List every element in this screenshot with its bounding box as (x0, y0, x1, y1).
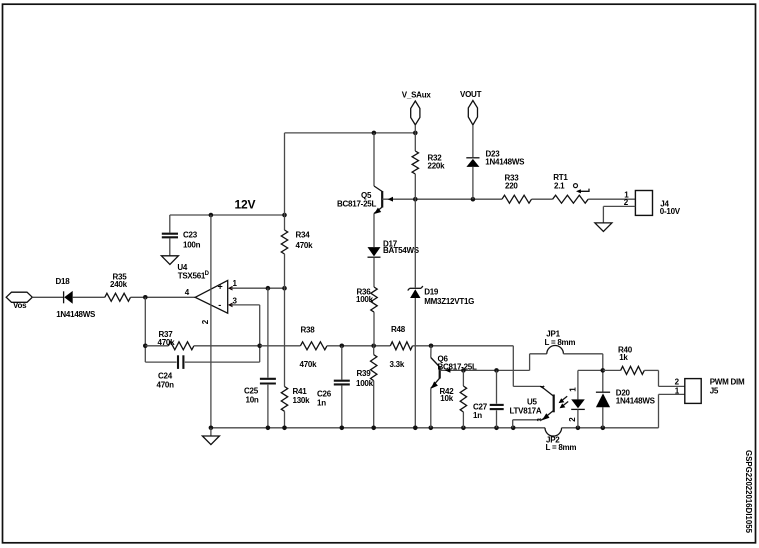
opto U5 LED (571, 399, 585, 408)
svg-text:2: 2 (568, 417, 577, 422)
zener D19 MM3Z12VT1G (410, 287, 421, 289)
svg-text:100k: 100k (356, 295, 374, 304)
wire (415, 198, 502, 200)
svg-text:240k: 240k (110, 280, 128, 289)
wire (373, 346, 375, 355)
wire (413, 345, 514, 347)
wire (267, 385, 269, 428)
resistor R35 240k (105, 293, 131, 301)
wire (284, 254, 286, 387)
svg-text:VOUT: VOUT (460, 90, 482, 99)
wire (210, 215, 212, 428)
svg-text:MM3Z12VT1G: MM3Z12VT1G (424, 297, 474, 306)
diode D18 1N4148WS (63, 291, 65, 303)
svg-text:1n: 1n (473, 411, 482, 420)
svg-text:V_SAux: V_SAux (402, 91, 432, 100)
wire (169, 215, 171, 233)
wire (496, 370, 498, 403)
svg-text:C23: C23 (183, 231, 198, 240)
wire (512, 420, 514, 428)
svg-text:3: 3 (537, 418, 543, 422)
svg-text:1: 1 (569, 387, 578, 392)
diode D20 1N4148WS (596, 391, 610, 393)
junction (576, 426, 581, 431)
svg-text:1: 1 (675, 386, 680, 395)
svg-text:BC817-25L: BC817-25L (337, 200, 376, 209)
junction (413, 197, 418, 202)
wire (231, 304, 260, 306)
svg-text:4: 4 (185, 288, 190, 297)
Q6 base wire w/ arrow (445, 368, 450, 373)
junction (601, 426, 606, 431)
svg-text:470k: 470k (300, 360, 318, 369)
node VOUT flag (468, 101, 477, 125)
ground at J4 (595, 223, 612, 232)
svg-text:L = 8mm: L = 8mm (545, 338, 576, 347)
junction (429, 426, 434, 431)
wire (285, 132, 416, 134)
svg-text:C24: C24 (158, 371, 173, 380)
svg-text:4: 4 (541, 385, 547, 389)
wire (210, 428, 212, 436)
wire (373, 214, 375, 248)
wire (373, 381, 375, 428)
wire (185, 361, 260, 363)
resistor R40 1k (621, 366, 645, 374)
svg-text:1N4148WS: 1N4148WS (485, 158, 525, 167)
wire (440, 369, 530, 371)
svg-text:100n: 100n (183, 240, 201, 249)
wire (341, 386, 343, 428)
resistor R48 3.3k (390, 342, 412, 350)
junction (282, 286, 287, 291)
svg-text:2.1: 2.1 (554, 182, 565, 191)
connector J5 PWM DIM (685, 379, 701, 404)
wire (211, 427, 545, 429)
svg-text:D18: D18 (56, 277, 71, 286)
wire (194, 345, 260, 347)
wire (602, 407, 604, 428)
wire (532, 198, 553, 200)
junction (257, 344, 262, 349)
capacitor C25 10n (260, 378, 276, 380)
svg-text:Vos: Vos (13, 301, 27, 310)
svg-text:220: 220 (505, 181, 518, 190)
opto U5 LTV817A phototransistor (553, 395, 555, 413)
svg-text:R41: R41 (293, 387, 308, 396)
resistor R33 220 (502, 195, 532, 203)
svg-text:R34: R34 (296, 231, 311, 240)
wire (430, 346, 432, 358)
wire (513, 419, 542, 421)
junction (143, 344, 148, 349)
svg-text:R48: R48 (391, 325, 406, 334)
svg-text:D19: D19 (424, 288, 439, 297)
wire (577, 370, 579, 399)
svg-text:100k: 100k (356, 379, 374, 388)
wire (602, 354, 604, 392)
svg-text:PWM DIM: PWM DIM (710, 378, 745, 387)
wire (414, 174, 416, 199)
svg-text:130k: 130k (293, 396, 311, 405)
svg-text:J5: J5 (710, 386, 719, 395)
junction (266, 286, 271, 291)
svg-text:L = 8mm: L = 8mm (546, 443, 577, 452)
svg-text:1n: 1n (317, 398, 326, 407)
svg-text:10n: 10n (246, 395, 259, 404)
pin 3 arrow (228, 303, 233, 308)
svg-text:10k: 10k (440, 394, 453, 403)
wire (603, 205, 635, 207)
wire (284, 215, 286, 230)
wire (462, 370, 464, 386)
svg-text:220k: 220k (428, 161, 446, 170)
wire (414, 133, 416, 151)
wire (577, 409, 579, 427)
wire (530, 353, 547, 355)
opto light arrows (561, 396, 567, 401)
wire (414, 199, 416, 287)
wire (414, 298, 416, 428)
wire (603, 369, 621, 371)
wire (563, 353, 602, 355)
wire (341, 346, 343, 380)
wire (602, 206, 604, 223)
wire (144, 297, 146, 362)
wire (373, 258, 375, 287)
wire (131, 296, 196, 298)
ground under C23 (161, 256, 178, 265)
junction (511, 426, 516, 431)
junction (282, 426, 287, 431)
resistor R41 130k (281, 387, 287, 412)
wire (659, 393, 685, 395)
wire (373, 312, 375, 346)
junction (601, 368, 606, 373)
junction (209, 213, 214, 218)
wire (284, 133, 286, 215)
diode D23 1N4148WS (466, 157, 479, 159)
wire (430, 388, 432, 428)
wire (562, 427, 659, 429)
wire (170, 214, 285, 216)
pin 1 arrow (228, 286, 233, 291)
junction (340, 426, 345, 431)
capacitor C24 470n (177, 355, 179, 369)
junction (209, 426, 214, 431)
thermistor RT1 2.1 (553, 195, 589, 203)
wire (373, 133, 375, 186)
wire (145, 345, 168, 347)
junction (461, 426, 466, 431)
svg-text:1: 1 (233, 279, 238, 288)
resistor R38 470k (300, 342, 327, 350)
junction (494, 368, 499, 373)
resistor R36 100k (371, 287, 377, 312)
wire (659, 385, 685, 387)
svg-text:TSX561: TSX561 (178, 271, 206, 280)
transistor Q6 BC817-25L (431, 358, 440, 368)
resistor R37 470k (168, 342, 194, 350)
svg-text:1N4148WS: 1N4148WS (56, 310, 96, 319)
capacitor C23 100n (162, 233, 178, 235)
transistor Q5 BC817-25L (374, 186, 382, 192)
junction (461, 368, 466, 373)
svg-text:-: - (218, 300, 221, 310)
svg-text:3: 3 (233, 296, 238, 305)
junction (143, 295, 148, 300)
wire (260, 345, 301, 347)
wire (259, 305, 261, 362)
Q5 base wire w/ arrow (388, 197, 393, 202)
svg-text:3.3k: 3.3k (390, 360, 405, 369)
diode D17 BAT54WS (368, 247, 381, 256)
wire (578, 369, 603, 371)
wire (512, 346, 514, 387)
svg-text:D: D (205, 271, 210, 277)
capacitor C26 1n (334, 380, 350, 382)
wire (529, 354, 531, 371)
junction (413, 131, 418, 136)
wire (327, 345, 390, 347)
wire (644, 369, 658, 371)
svg-text:U5: U5 (527, 397, 538, 406)
wire (658, 394, 660, 427)
resistor R42 10k (460, 386, 466, 412)
junction (471, 197, 476, 202)
wire (169, 239, 171, 256)
wire (496, 410, 498, 428)
ground main (202, 436, 219, 445)
svg-text:470k: 470k (158, 338, 176, 347)
wire (382, 198, 415, 200)
junction (266, 426, 271, 431)
svg-text:R39: R39 (357, 369, 372, 378)
wire (231, 287, 285, 289)
svg-text:470k: 470k (296, 241, 314, 250)
wire (414, 125, 416, 133)
resistor R34 470k (281, 230, 287, 254)
jumper JP2 L=8mm (545, 428, 562, 436)
svg-text:LTV817A: LTV817A (510, 406, 542, 415)
capacitor C27 1n (490, 404, 504, 406)
wire (658, 370, 660, 386)
svg-text:R38: R38 (301, 326, 316, 335)
svg-text:BAT54WS: BAT54WS (383, 246, 420, 255)
wire (267, 288, 269, 377)
junction (282, 213, 287, 218)
junction (429, 344, 434, 349)
connector J4 0-10V (635, 191, 652, 216)
svg-text:C26: C26 (317, 389, 332, 398)
jumper JP1 L=8mm (547, 345, 564, 353)
wire (513, 385, 541, 387)
svg-text:12V: 12V (235, 198, 256, 212)
junction (372, 131, 377, 136)
svg-text:2: 2 (675, 378, 680, 387)
node Vos flag (6, 292, 32, 302)
wire (73, 296, 105, 298)
wire (588, 198, 635, 200)
node V_SAux flag (411, 101, 420, 125)
junction (494, 426, 499, 431)
junction (371, 426, 376, 431)
wire (462, 412, 464, 428)
svg-text:470n: 470n (157, 380, 175, 389)
wire (472, 167, 474, 199)
svg-text:1N4148WS: 1N4148WS (616, 397, 656, 406)
wire (32, 296, 63, 298)
junction (413, 426, 418, 431)
svg-text:GSPG22022016DI1055: GSPG22022016DI1055 (744, 450, 753, 534)
svg-text:1k: 1k (619, 353, 628, 362)
op-amp U4 TSX561 (195, 280, 228, 313)
wire (145, 361, 176, 363)
resistor R32 220k (412, 151, 418, 174)
svg-text:+: + (218, 282, 223, 292)
wire (472, 125, 474, 157)
wire (284, 411, 286, 428)
junction (371, 344, 376, 349)
resistor R39 100k (371, 355, 377, 381)
junction (340, 344, 345, 349)
svg-text:0-10V: 0-10V (660, 207, 681, 216)
svg-text:2: 2 (201, 319, 210, 324)
